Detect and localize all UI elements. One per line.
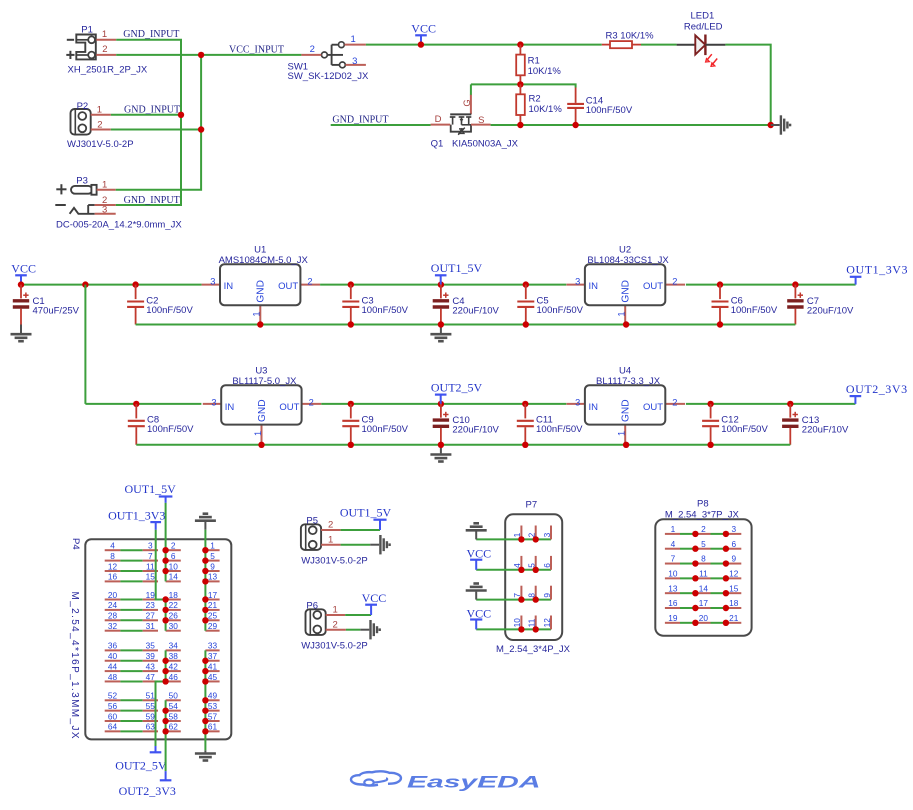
P7 pin 1: [512, 526, 522, 540]
svg-text:1: 1: [328, 535, 333, 546]
svg-text:OUT1_3V3: OUT1_3V3: [846, 263, 908, 277]
connector P8 M_2.54_3*7P_JX: [655, 498, 751, 635]
P4 pin 57: [205, 711, 219, 721]
junction P4 pin45: [202, 678, 208, 684]
junction P8 pin17: [692, 605, 698, 611]
resistor R2 10K/1%: [516, 84, 562, 125]
svg-text:10: 10: [169, 561, 179, 571]
net port flag OUT2_3V3 (rowB out2_3v3): [846, 382, 908, 404]
junction P8 pin3: [723, 531, 729, 537]
junction P8 pin21: [723, 620, 729, 626]
wire GND_INPUT to Q1 drain: [331, 124, 431, 126]
svg-text:27: 27: [146, 611, 156, 621]
svg-text:13: 13: [668, 583, 678, 593]
wire P6.2 to ground: [346, 629, 360, 631]
svg-text:1: 1: [333, 605, 338, 616]
svg-text:OUT: OUT: [643, 402, 663, 413]
P7 pin 9: [542, 586, 552, 600]
svg-text:14: 14: [699, 583, 709, 593]
resistor R1 10K/1%: [516, 45, 561, 85]
svg-text:62: 62: [169, 722, 179, 732]
wire P7 row 2: [476, 569, 551, 571]
svg-text:100nF/50V: 100nF/50V: [586, 105, 633, 116]
pin G of Q1: [462, 95, 473, 114]
connector P6 WJ301V-5.0-2P: [301, 600, 368, 651]
P4 pin 37: [205, 651, 219, 661]
P4 pins 56-55 pair wire: [105, 701, 158, 711]
P4 pin 42: [166, 661, 181, 671]
P4 pin 58: [166, 711, 181, 721]
svg-text:G: G: [462, 99, 473, 106]
junction rowB rail at C13: [787, 401, 793, 407]
junction P8 pin12: [723, 575, 729, 581]
svg-text:2: 2: [171, 541, 176, 551]
junction P7 row4 col2: [533, 626, 539, 632]
pin S of Q1: [471, 115, 491, 126]
junction gnd rail at R2: [517, 122, 523, 128]
junction VCC at R1 top: [517, 41, 523, 47]
junction rowA rail at C6: [717, 281, 723, 287]
wire U4 out to OUT2_3V3: [686, 403, 856, 405]
junction P4 pin26: [162, 617, 168, 623]
capacitor C8 100nF/50V: [128, 404, 194, 445]
svg-text:17: 17: [208, 590, 218, 600]
junction rowA rail at C5: [523, 281, 529, 287]
svg-text:P3: P3: [76, 175, 88, 186]
svg-text:OUT: OUT: [278, 281, 298, 292]
svg-text:3: 3: [211, 397, 216, 407]
svg-text:P7: P7: [526, 499, 538, 510]
svg-text:14: 14: [169, 572, 179, 582]
svg-text:32: 32: [108, 621, 118, 631]
P4 pins 40-39 pair wire: [105, 651, 158, 661]
svg-text:11: 11: [699, 569, 708, 579]
junction P4 pin25: [202, 617, 208, 623]
junction P4 pin41: [202, 668, 208, 674]
svg-text:60: 60: [108, 711, 118, 721]
junction rowA rail at VCC flag: [18, 281, 24, 287]
P4 pin 14: [166, 572, 181, 582]
svg-text:50: 50: [169, 691, 179, 701]
svg-text:8: 8: [701, 554, 706, 564]
P7 pin 11: [527, 616, 537, 630]
junction rowA rail at C7: [792, 281, 798, 287]
P4 pin 17: [205, 590, 219, 600]
junction VCC_INPUT at P1.2 branch: [198, 52, 204, 58]
wire VCC_INPUT P2.2: [111, 129, 201, 131]
svg-text:63: 63: [146, 722, 156, 732]
svg-text:P1: P1: [81, 24, 93, 35]
P7 pin 8: [527, 586, 537, 600]
svg-text:Q1: Q1: [431, 139, 444, 150]
svg-text:39: 39: [146, 651, 156, 661]
junction P8 pin6: [723, 546, 729, 552]
svg-text:6: 6: [171, 551, 176, 561]
svg-text:64: 64: [108, 722, 118, 732]
net port flag OUT2_5V (p4 out2_5v): [115, 746, 167, 772]
net port flag OUT1_5V (rowA out1_5v): [431, 261, 483, 284]
svg-text:KIA50N03A_JX: KIA50N03A_JX: [452, 139, 519, 150]
capacitor C3 100nF/50V: [342, 285, 408, 325]
voltage regulator U4 BL1117-3.3_JX: [567, 366, 686, 445]
junction rowA rail at C4: [438, 281, 444, 287]
junction rowB gnd at C11: [522, 442, 528, 448]
pin D of Q1: [431, 114, 451, 125]
connector P5 WJ301V-5.0-2P: [301, 515, 368, 566]
svg-text:21: 21: [208, 600, 218, 610]
svg-text:OUT1_5V: OUT1_5V: [125, 482, 177, 496]
voltage regulator U2 BL1084-33CS1_JX: [567, 245, 686, 325]
connector P1 XH_2501R_2P_JX: [66, 24, 148, 75]
svg-text:220uF/10V: 220uF/10V: [452, 425, 499, 436]
svg-text:44: 44: [108, 661, 118, 671]
wire GND_INPUT P2.1: [111, 114, 181, 116]
junction rowB rail at C12: [707, 401, 713, 407]
junction P7 row2 col1: [518, 567, 524, 573]
wire P4 OUT2_3V3 column: [165, 700, 167, 771]
P4 pin 29: [205, 621, 219, 631]
junction rowB gnd at C9: [348, 442, 354, 448]
svg-text:P5: P5: [306, 515, 318, 526]
junction P4 pin58: [162, 718, 168, 724]
ground ground (P4 bottom): [195, 750, 216, 760]
svg-text:100nF/50V: 100nF/50V: [537, 305, 584, 316]
P4 pin 13: [205, 572, 219, 582]
svg-text:20: 20: [108, 590, 118, 600]
svg-text:18: 18: [169, 590, 179, 600]
svg-text:VCC: VCC: [411, 21, 436, 35]
junction GND_INPUT at P2.1: [178, 112, 184, 118]
svg-text:BL1084-33CS1_JX: BL1084-33CS1_JX: [587, 255, 669, 266]
P8 pins 7-8-9 row: [665, 554, 741, 564]
pin 1 of SW1: [345, 34, 366, 45]
svg-text:24: 24: [108, 600, 118, 610]
svg-text:34: 34: [169, 641, 179, 651]
svg-text:2: 2: [672, 397, 677, 407]
capacitor C7 220uF/10V (polarized): [787, 285, 854, 325]
P4 pin 6: [166, 551, 181, 561]
wire P5.2 to OUT1_5V: [341, 529, 380, 531]
junction P7 row3 col1: [518, 596, 524, 602]
svg-text:46: 46: [169, 672, 179, 682]
P4 pin 2: [166, 541, 181, 551]
svg-text:9: 9: [542, 593, 552, 598]
svg-text:VCC_INPUT: VCC_INPUT: [229, 44, 284, 55]
svg-text:R3 10K/1%: R3 10K/1%: [606, 31, 655, 42]
svg-text:3: 3: [210, 276, 215, 286]
svg-text:26: 26: [169, 611, 179, 621]
svg-text:GND_INPUT: GND_INPUT: [124, 195, 180, 206]
svg-text:IN: IN: [589, 402, 599, 413]
svg-text:VCC: VCC: [467, 606, 492, 620]
svg-text:220uF/10V: 220uF/10V: [802, 425, 849, 436]
P4 pin 22: [166, 600, 181, 610]
svg-text:45: 45: [208, 672, 218, 682]
svg-text:33: 33: [208, 641, 218, 651]
junction P7 row2 col2: [533, 567, 539, 573]
P7 pin 6: [542, 556, 552, 570]
pin 2 of SW1: [301, 44, 321, 55]
svg-text:42: 42: [169, 661, 179, 671]
svg-text:VCC: VCC: [362, 591, 387, 605]
svg-text:100nF/50V: 100nF/50V: [536, 424, 583, 435]
junction P8 pin20: [692, 620, 698, 626]
net port flag OUT1_5V (p5 out1_5v): [340, 506, 392, 530]
svg-text:P4: P4: [70, 538, 81, 550]
P8 pins 13-14-15 row: [665, 583, 741, 593]
svg-text:P2: P2: [77, 101, 89, 112]
wire P4 OUT2_5V column: [156, 650, 166, 746]
svg-text:18: 18: [729, 598, 739, 608]
junction P4 pin21: [202, 607, 208, 613]
connector P2 WJ301V-5.0-2P: [67, 101, 134, 150]
svg-text:10: 10: [512, 618, 522, 628]
P7 pin 3: [542, 526, 552, 540]
P4 pins 36-35 pair wire: [105, 641, 158, 651]
svg-text:M_2.54_3*4P_JX: M_2.54_3*4P_JX: [496, 644, 571, 655]
svg-text:8: 8: [110, 551, 115, 561]
ground ground (LED return): [771, 115, 790, 134]
net port flag OUT1_3V3 (rowA out1_3v3): [846, 263, 908, 285]
svg-text:31: 31: [146, 621, 156, 631]
svg-text:1: 1: [210, 541, 215, 551]
junction P4 pin10: [162, 568, 168, 574]
junction P4 pin22: [162, 607, 168, 613]
EasyEDA logo: [351, 771, 541, 791]
svg-text:1: 1: [102, 29, 107, 40]
net port flag OUT2_3V3 (p4 out2_3v3): [119, 771, 176, 798]
pin 2 of P2: [91, 119, 111, 130]
junction P4 pin37: [202, 658, 208, 664]
wire U2 out to OUT1_3V3: [686, 284, 856, 286]
P4 pin 5: [205, 551, 219, 561]
svg-text:IN: IN: [589, 281, 599, 292]
svg-text:11: 11: [527, 618, 537, 627]
ground ground (P7 row1): [466, 523, 487, 539]
capacitor C12 100nF/50V: [702, 404, 768, 445]
pin 1 of P1: [96, 29, 116, 40]
junction rowA gnd at C5: [523, 321, 529, 327]
wire U3 out to U4 in: [321, 403, 566, 405]
P4 pins 8-7 pair wire: [105, 551, 158, 561]
junction P8 pin2: [692, 531, 698, 537]
svg-text:1: 1: [97, 105, 102, 116]
svg-text:23: 23: [146, 600, 156, 610]
P4 pins 48-47 pair wire: [105, 672, 158, 682]
svg-text:M_2.54_4*16P_1.3MM_JX: M_2.54_4*16P_1.3MM_JX: [69, 592, 80, 739]
svg-text:35: 35: [146, 641, 156, 651]
capacitor C9 100nF/50V: [342, 404, 408, 445]
svg-text:VCC: VCC: [467, 547, 492, 561]
svg-text:1: 1: [252, 311, 262, 316]
svg-text:10K/1%: 10K/1%: [528, 66, 562, 77]
svg-text:37: 37: [208, 651, 218, 661]
net port flag VCC (rowA): [11, 262, 36, 285]
svg-text:GND: GND: [621, 399, 632, 422]
svg-text:GND: GND: [621, 280, 632, 303]
svg-text:59: 59: [146, 711, 156, 721]
svg-text:5: 5: [210, 551, 215, 561]
svg-text:OUT2_3V3: OUT2_3V3: [846, 382, 908, 396]
junction rowB rail at C10: [438, 401, 444, 407]
pin 3 of SW1: [346, 56, 366, 67]
svg-text:470uF/25V: 470uF/25V: [33, 305, 80, 316]
svg-text:220uF/10V: 220uF/10V: [807, 305, 854, 316]
svg-text:GND_INPUT: GND_INPUT: [123, 29, 179, 40]
svg-text:49: 49: [208, 691, 218, 701]
svg-text:2: 2: [102, 44, 107, 55]
P4 pins 4-3 pair wire: [105, 541, 158, 551]
wire Q1 gate: [470, 84, 472, 95]
junction P4 pin1: [202, 547, 208, 553]
svg-text:OUT: OUT: [643, 281, 663, 292]
wire P6.1 to VCC: [345, 614, 371, 616]
P4 pins 24-23 pair wire: [105, 600, 158, 610]
junction P4 pin62: [162, 728, 168, 734]
svg-text:BL1117-3.3_JX: BL1117-3.3_JX: [596, 376, 661, 387]
junction rowA rail at branch: [82, 281, 88, 287]
svg-text:11: 11: [146, 561, 155, 571]
svg-text:41: 41: [208, 661, 218, 671]
junction P7 row3 col2: [533, 596, 539, 602]
net port flag VCC (p6 vcc): [362, 591, 387, 615]
svg-text:3: 3: [575, 397, 580, 407]
wire VCC_INPUT vertical to P3.1: [116, 55, 201, 190]
svg-text:16: 16: [668, 598, 678, 608]
capacitor C13 220uF/10V (polarized): [782, 404, 849, 445]
svg-text:5: 5: [701, 539, 706, 549]
P4 pin 25: [205, 611, 219, 621]
P4 pin 18: [166, 590, 181, 600]
svg-text:20: 20: [699, 613, 709, 623]
svg-text:57: 57: [208, 711, 218, 721]
svg-text:100nF/50V: 100nF/50V: [731, 305, 778, 316]
wire Q1 source to LED return: [491, 124, 771, 126]
svg-text:EasyEDA: EasyEDA: [407, 774, 541, 792]
junction P4 pin53: [202, 707, 208, 713]
pin 2 of P3: [95, 195, 116, 206]
capacitor C2 100nF/50V: [127, 285, 193, 325]
junction P4 pin2: [162, 547, 168, 553]
pin 1 of P2: [91, 105, 111, 116]
svg-text:15: 15: [146, 572, 156, 582]
svg-text:2: 2: [672, 276, 677, 286]
svg-text:58: 58: [169, 711, 179, 721]
P7 pin 4: [512, 556, 522, 570]
junction rowB rail at C8: [133, 401, 139, 407]
svg-text:220uF/10V: 220uF/10V: [452, 305, 499, 316]
connector P3 DC-005-20A_14.2*9.0mm_JX: [55, 175, 182, 230]
svg-text:DC-005-20A_14.2*9.0mm_JX: DC-005-20A_14.2*9.0mm_JX: [56, 220, 182, 231]
pin 1 of P3: [97, 180, 116, 191]
svg-text:43: 43: [146, 661, 156, 671]
ground ground (P7 row3): [466, 584, 487, 600]
junction rowB gnd at U4: [623, 442, 629, 448]
P4 pins 32-31 pair wire: [105, 621, 158, 631]
svg-text:AMS1084CM-5.0_JX: AMS1084CM-5.0_JX: [219, 255, 309, 266]
svg-text:7: 7: [671, 554, 676, 564]
svg-text:15: 15: [729, 583, 739, 593]
P4 pins 44-43 pair wire: [105, 661, 158, 671]
svg-text:OUT2_3V3: OUT2_3V3: [119, 784, 176, 798]
svg-text:48: 48: [108, 672, 118, 682]
wire P7 row 1: [476, 538, 551, 540]
svg-text:1: 1: [617, 431, 627, 436]
capacitor C1 470uF/25V (polarized): [13, 285, 80, 325]
junction P4 pin17: [202, 596, 208, 602]
svg-text:100nF/50V: 100nF/50V: [362, 424, 409, 435]
svg-text:4: 4: [671, 539, 676, 549]
svg-text:GND: GND: [257, 399, 268, 422]
svg-text:XH_2501R_2P_JX: XH_2501R_2P_JX: [68, 65, 148, 76]
wire row A ground rail: [136, 324, 796, 326]
wire VCC rail row B left: [85, 403, 201, 405]
svg-text:1: 1: [671, 524, 676, 534]
P4 pin 38: [166, 651, 181, 661]
junction P4 pin54: [162, 707, 168, 713]
svg-text:25: 25: [208, 611, 218, 621]
P4 pin 9: [205, 561, 219, 571]
capacitor C4 220uF/10V (polarized): [433, 285, 500, 325]
P4 pin 45: [205, 672, 219, 682]
wire P5.1 to ground: [341, 544, 371, 546]
P4 pin 46: [166, 672, 181, 682]
svg-text:WJ301V-5.0-2P: WJ301V-5.0-2P: [301, 641, 368, 652]
net port flag VCC (p7 vcc1): [467, 547, 492, 570]
ground ground (C4): [430, 325, 451, 342]
svg-text:100nF/50V: 100nF/50V: [721, 424, 768, 435]
junction P7 row1 col1: [518, 536, 524, 542]
junction rowA rail at C3: [348, 281, 354, 287]
junction P8 pin15: [723, 590, 729, 596]
wire R3 to LED1: [641, 44, 677, 46]
junction rowA rail at C2: [132, 281, 138, 287]
svg-text:13: 13: [208, 572, 218, 582]
P4 pin 54: [166, 701, 181, 711]
svg-text:28: 28: [108, 611, 118, 621]
svg-text:19: 19: [668, 613, 678, 623]
voltage regulator U1 AMS1084CM-5.0_JX: [202, 245, 321, 325]
P8 pins 16-17-18 row: [665, 598, 741, 608]
wire row B ground rail: [136, 444, 790, 446]
net port flag VCC (top): [411, 21, 436, 44]
pin 3 of P3: [95, 204, 116, 215]
svg-text:29: 29: [208, 621, 218, 631]
svg-text:38: 38: [169, 651, 179, 661]
P4 pin 34: [166, 641, 181, 651]
svg-text:56: 56: [108, 701, 118, 711]
svg-text:Red/LED: Red/LED: [684, 21, 723, 32]
junction rowA gnd at U1: [257, 321, 263, 327]
svg-text:3: 3: [731, 524, 736, 534]
net port flag OUT1_3V3 (p4 out1_3v3): [108, 509, 165, 530]
P4 pin 1: [205, 541, 219, 551]
wire VCC rail row A left: [21, 284, 202, 286]
P4 pin 33: [205, 641, 219, 651]
svg-text:S: S: [478, 115, 484, 126]
junction P4 pin42: [162, 668, 168, 674]
svg-text:SW_SK-12D02_JX: SW_SK-12D02_JX: [288, 71, 369, 82]
pin 2 of P5: [321, 520, 341, 531]
svg-text:36: 36: [108, 641, 118, 651]
junction rowB rail at C11: [522, 401, 528, 407]
wire LED1 to ground corner: [725, 45, 770, 125]
svg-text:2: 2: [701, 524, 706, 534]
capacitor C5 100nF/50V: [517, 285, 583, 325]
svg-text:P6: P6: [306, 600, 318, 611]
svg-text:3: 3: [575, 276, 580, 286]
P7 pin 12: [542, 616, 552, 630]
